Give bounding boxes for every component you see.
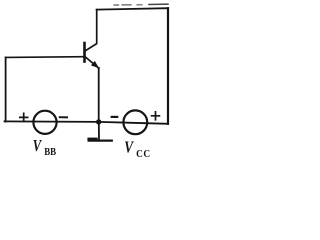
source VBB circle xyxy=(33,111,56,134)
wire emitter vertical xyxy=(98,68,100,122)
scan noise dashes top xyxy=(149,3,168,5)
transistor Q1 collector lead xyxy=(86,10,97,51)
source VCC circle xyxy=(123,110,147,134)
svg-text:BB: BB xyxy=(44,147,56,159)
wire left vertical xyxy=(5,57,7,121)
plus sign VBB xyxy=(20,113,28,121)
ground bar xyxy=(89,140,112,142)
wire base xyxy=(6,56,84,59)
svg-text:CC: CC xyxy=(136,149,151,161)
plus sign VCC xyxy=(152,112,160,120)
ground stem xyxy=(98,122,100,140)
wire right vertical xyxy=(167,8,169,124)
transistor Q1 emitter arrow xyxy=(91,61,99,68)
transistor Q1 base bar xyxy=(83,43,86,62)
wire top (collector to Vcc loop) xyxy=(97,8,168,9)
transistor Q1 emitter lead xyxy=(86,57,99,68)
node junction dot xyxy=(96,119,101,124)
svg-text:V: V xyxy=(33,137,42,155)
wire bottom rail xyxy=(5,121,169,123)
minus sign VCC xyxy=(112,116,118,118)
ground smudge xyxy=(89,138,97,140)
svg-text:V: V xyxy=(124,138,134,157)
minus sign VBB xyxy=(60,116,67,118)
